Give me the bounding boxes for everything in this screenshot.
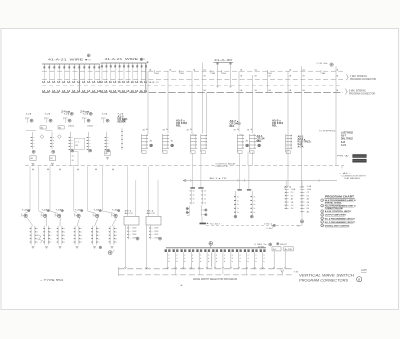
svg-text:T-2●: T-2● xyxy=(25,113,32,116)
svg-text:1A: 1A xyxy=(135,81,138,84)
svg-text:1A: 1A xyxy=(131,81,134,84)
svg-text:1A: 1A xyxy=(118,81,121,84)
svg-text:A2 ●: A2 ● xyxy=(284,185,292,188)
svg-text:b: b xyxy=(224,261,225,263)
svg-text:1A: 1A xyxy=(104,81,107,84)
svg-text:A-7A: A-7A xyxy=(298,146,304,149)
svg-text:2401: 2401 xyxy=(87,126,93,128)
svg-text:1A: 1A xyxy=(100,81,103,84)
svg-text:06: 06 xyxy=(72,160,74,162)
svg-text:4: 4 xyxy=(192,258,193,260)
svg-text:1A: 1A xyxy=(52,81,55,84)
svg-text:4: 4 xyxy=(256,258,257,260)
svg-text:4: 4 xyxy=(224,258,225,260)
svg-text:2b: 2b xyxy=(204,203,206,205)
svg-text:1A: 1A xyxy=(57,81,60,84)
svg-text:PIN “A”: PIN “A” xyxy=(337,154,350,157)
svg-text:3: 3 xyxy=(322,211,323,213)
svg-text:b: b xyxy=(184,261,185,263)
svg-text:b: b xyxy=(192,261,193,263)
svg-text:REL: REL xyxy=(272,125,278,128)
svg-text:2: 2 xyxy=(248,255,249,257)
svg-text:2: 2 xyxy=(168,255,169,257)
svg-text:1: 1 xyxy=(322,200,323,202)
svg-text:2c: 2c xyxy=(253,212,255,214)
svg-text:1A: 1A xyxy=(122,81,125,84)
svg-text:1A: 1A xyxy=(62,81,65,84)
svg-text:2b: 2b xyxy=(204,195,206,197)
svg-text:1 SEC. INTERVAL: 1 SEC. INTERVAL xyxy=(350,75,368,78)
svg-text:4: 4 xyxy=(263,258,264,260)
svg-text:T-2●: T-2● xyxy=(44,113,51,116)
svg-text:2c: 2c xyxy=(237,200,239,202)
svg-text:2c: 2c xyxy=(253,204,255,206)
svg-text:2c: 2c xyxy=(253,208,255,210)
svg-text:2c: 2c xyxy=(237,208,239,210)
svg-text:b: b xyxy=(263,261,264,263)
svg-text:5: 5 xyxy=(322,218,323,220)
svg-text:A4-13: A4-13 xyxy=(125,212,134,215)
svg-text:T-2●: T-2● xyxy=(101,113,108,116)
svg-text:2c: 2c xyxy=(237,196,239,198)
svg-text:2b: 2b xyxy=(204,191,206,193)
svg-text:5 MIN. INTERVAL: 5 MIN. INTERVAL xyxy=(349,89,367,92)
svg-text:HELP: HELP xyxy=(280,244,288,246)
svg-text:B6: B6 xyxy=(105,153,107,155)
svg-text:2b: 2b xyxy=(193,199,195,201)
svg-text:2b: 2b xyxy=(193,195,195,197)
svg-text:2 4b: 2 4b xyxy=(266,228,272,230)
svg-text:2c: 2c xyxy=(237,212,239,214)
svg-text:2b: 2b xyxy=(204,199,206,201)
svg-text:2: 2 xyxy=(184,255,185,257)
svg-text:A-5B: A-5B xyxy=(285,248,293,251)
svg-text:A5-1 ● TR: A5-1 ● TR xyxy=(210,177,228,180)
svg-text:→ A4 ○: → A4 ○ xyxy=(338,172,352,175)
svg-text:4 RD ●: 4 RD ● xyxy=(264,223,272,225)
svg-text:b: b xyxy=(168,261,169,263)
svg-text:6: 6 xyxy=(322,222,323,224)
svg-text:4: 4 xyxy=(232,258,233,260)
svg-text:1-6A: 1-6A xyxy=(291,188,296,191)
svg-text:~ TYPE 554: ~ TYPE 554 xyxy=(40,278,64,282)
svg-text:b: b xyxy=(256,261,257,263)
svg-text:THE PASSES: THE PASSES xyxy=(344,177,361,180)
svg-text:1A: 1A xyxy=(67,81,70,84)
svg-text:WAVE WIDTH SELECTOR PROGRAM: WAVE WIDTH SELECTOR PROGRAM xyxy=(193,278,237,281)
svg-text:2: 2 xyxy=(176,255,177,257)
svg-text:1C: 1C xyxy=(156,82,159,84)
svg-text:A4-13: A4-13 xyxy=(147,212,156,215)
svg-text:PROGRAM CONNECTOR: PROGRAM CONNECTOR xyxy=(350,78,376,81)
svg-text:T-2●: T-2● xyxy=(117,113,124,116)
svg-text:4: 4 xyxy=(322,215,323,217)
svg-text:b: b xyxy=(208,261,209,263)
svg-text:VERTICAL WAVE SWITCH: VERTICAL WAVE SWITCH xyxy=(299,274,355,278)
svg-text:1-6A: 1-6A xyxy=(307,185,312,188)
svg-text:PROGRAM CHART: PROGRAM CHART xyxy=(325,194,355,198)
svg-text:7: 7 xyxy=(322,225,323,227)
svg-text:c .5MF: c .5MF xyxy=(130,231,138,233)
svg-text:c .5MF: c .5MF xyxy=(130,228,138,230)
svg-text:14T: 14T xyxy=(361,269,368,272)
svg-text:4: 4 xyxy=(176,258,177,260)
svg-text:41-A-30: 41-A-30 xyxy=(214,58,233,62)
svg-text:b: b xyxy=(176,261,177,263)
svg-text:CONTROL RELAY: CONTROL RELAY xyxy=(216,162,237,165)
svg-text:2c: 2c xyxy=(237,204,239,206)
svg-text:4: 4 xyxy=(168,258,169,260)
svg-text:4: 4 xyxy=(216,258,217,260)
svg-text:b: b xyxy=(240,261,241,263)
svg-text:C.R. Rx: C.R. Rx xyxy=(317,63,329,65)
svg-text:PROGRAM CONNECTORS: PROGRAM CONNECTORS xyxy=(299,278,349,282)
svg-text:2: 2 xyxy=(216,255,217,257)
svg-text:2b: 2b xyxy=(193,203,195,205)
svg-text:2c: 2c xyxy=(253,196,255,198)
svg-text:1A: 1A xyxy=(87,81,90,84)
svg-text:1A: 1A xyxy=(42,81,45,84)
svg-text:TO STEPPER ●: TO STEPPER ● xyxy=(319,130,336,133)
svg-text:41-A-21 WIRE ●○: 41-A-21 WIRE ●○ xyxy=(105,57,147,61)
svg-text:CIRCUIT B: CIRCUIT B xyxy=(216,166,229,168)
svg-text:c .5MF: c .5MF xyxy=(152,228,160,230)
svg-text:A-7A: A-7A xyxy=(341,144,346,147)
svg-text:B SEL: B SEL xyxy=(258,246,265,248)
svg-text:C2B: C2B xyxy=(300,186,305,188)
svg-text:b: b xyxy=(216,261,217,263)
svg-text:1A: 1A xyxy=(113,81,116,84)
svg-text:1A: 1A xyxy=(140,81,143,84)
svg-text:REL: REL xyxy=(176,125,182,128)
svg-text:2: 2 xyxy=(240,255,241,257)
svg-text:REL A: REL A xyxy=(118,121,126,124)
svg-text:4: 4 xyxy=(208,258,209,260)
svg-text:1A: 1A xyxy=(72,81,75,84)
svg-text:b: b xyxy=(200,261,201,263)
svg-text:1A: 1A xyxy=(92,81,95,84)
svg-text:1A: 1A xyxy=(77,81,80,84)
svg-text:2: 2 xyxy=(200,255,201,257)
svg-text:b: b xyxy=(248,261,249,263)
svg-text:c .5MF: c .5MF xyxy=(152,234,160,236)
svg-text:B2: B2 xyxy=(68,111,70,113)
svg-text:2c: 2c xyxy=(253,200,255,202)
svg-text:2: 2 xyxy=(322,206,323,208)
svg-text:REL: REL xyxy=(257,140,263,143)
svg-text:4: 4 xyxy=(248,258,249,260)
svg-text:2: 2 xyxy=(232,255,233,257)
svg-text:2401: 2401 xyxy=(68,126,74,128)
svg-text:→: → xyxy=(344,160,346,162)
svg-text:PROGRAM CONNECTOR: PROGRAM CONNECTOR xyxy=(349,92,375,95)
svg-text:1A: 1A xyxy=(82,81,85,84)
svg-text:B: B xyxy=(358,278,360,282)
svg-text:4: 4 xyxy=(184,258,185,260)
svg-text:2: 2 xyxy=(263,255,264,257)
svg-text:b: b xyxy=(232,261,233,263)
svg-text:1A: 1A xyxy=(47,81,50,84)
svg-text:2: 2 xyxy=(192,255,193,257)
svg-text:B2: B2 xyxy=(87,111,89,113)
svg-text:4: 4 xyxy=(240,258,241,260)
svg-text:2b: 2b xyxy=(193,191,195,193)
svg-text:2: 2 xyxy=(208,255,209,257)
svg-text:2: 2 xyxy=(256,255,257,257)
svg-text:1A: 1A xyxy=(126,81,129,84)
svg-text:1-6A: 1-6A xyxy=(307,188,312,191)
svg-text:4: 4 xyxy=(200,258,201,260)
svg-text:41-A-21 WIRE ●○: 41-A-21 WIRE ●○ xyxy=(48,58,92,62)
svg-text:REL: REL xyxy=(230,125,236,128)
svg-text:NC 4017: NC 4017 xyxy=(210,223,220,225)
svg-text:c .5MF: c .5MF xyxy=(130,234,138,236)
svg-text:c .5MF: c .5MF xyxy=(152,231,160,233)
svg-text:2: 2 xyxy=(224,255,225,257)
svg-text:1A: 1A xyxy=(109,81,112,84)
